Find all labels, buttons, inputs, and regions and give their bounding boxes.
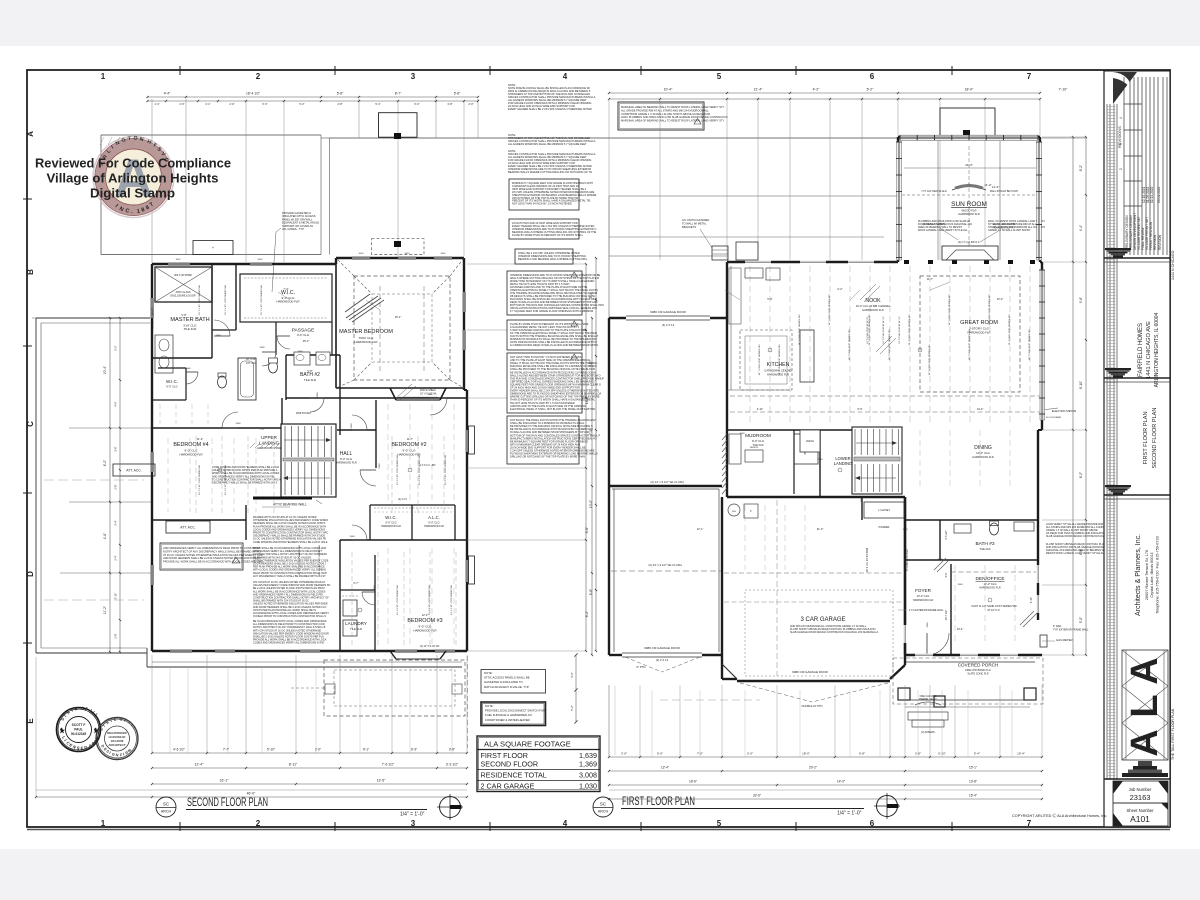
door arcs: [214, 320, 230, 336]
svg-text:BEARING WALLS WHERE CUTTING DR: BEARING WALLS WHERE CUTTING DRILLING OR …: [508, 170, 592, 174]
svg-text:2668: 2668: [351, 423, 353, 429]
svg-text:ELECTRIC METER: ELECTRIC METER: [1052, 409, 1076, 413]
village stamp seal: [93, 136, 174, 218]
dashed roof overhang around master bedroom: [354, 276, 450, 380]
svg-text:14" TJI 560 JOIST AT 16" OC: 14" TJI 560 JOIST AT 16" OC: [866, 316, 869, 344]
svg-text:ANY DISCREPANCY WALLS SHALL BE: ANY DISCREPANCY WALLS SHALL BE FRAMED WI…: [253, 575, 326, 578]
svg-text:2668: 2668: [317, 392, 319, 398]
sheet title: [1143, 408, 1158, 469]
svg-text:5'-2": 5'-2": [867, 88, 875, 92]
svg-text:3050: 3050: [176, 259, 182, 261]
svg-text:7: 7: [1027, 72, 1032, 81]
svg-text:16" X 9 1/2" JOIST SERIES 560: 16" X 9 1/2" JOIST SERIES 560: [397, 584, 399, 614]
landing hatch left plan: [250, 443, 255, 448]
svg-text:BEARING LOAD BEARING WALLS WHE: BEARING LOAD BEARING WALLS WHERE CUTTING…: [518, 257, 588, 261]
boxed attic note: [160, 543, 243, 570]
svg-text:14'-0": 14'-0": [837, 780, 845, 784]
svg-text:A: A: [26, 131, 35, 137]
svg-text:AFL CODES - TYP: AFL CODES - TYP: [282, 227, 304, 231]
svg-text:(2) 14" X 9 1/2" WL: (2) 14" X 9 1/2" WL: [420, 646, 440, 648]
svg-text:13'-8": 13'-8": [969, 780, 977, 784]
svg-text:6'-7": 6'-7": [353, 581, 358, 585]
bottom wall jamb blocks sunroom: [904, 260, 909, 264]
svg-text:14" TJI 560 JOIST AT 16" OC: 14" TJI 560 JOIST AT 16" OC: [898, 316, 901, 344]
svg-text:600 X 48 SHWR: 600 X 48 SHWR: [174, 274, 192, 277]
svg-text:BATH #3: BATH #3: [975, 541, 994, 547]
vanity: [155, 335, 173, 373]
svg-text:16" X 9 1/2" JOIST SERIES 560: 16" X 9 1/2" JOIST SERIES 560: [299, 544, 301, 574]
svg-text:Telephone: 815-759-0720 Fax:: Telephone: 815-759-0720 Fax: 815-759-073…: [1156, 536, 1160, 613]
svg-text:FIRST FLOOR PLAN: FIRST FLOOR PLAN: [1143, 411, 1149, 464]
svg-text:2668: 2668: [216, 335, 222, 337]
svg-text:2668: 2668: [186, 368, 192, 370]
svg-text:HARDWOOD FLR: HARDWOOD FLR: [862, 308, 883, 312]
windows: gaps on walls: [168, 263, 190, 266]
svg-text:WALL SHOULD BE 5 INCH: WALL SHOULD BE 5 INCH: [990, 190, 1019, 193]
wic / alc closets: [370, 504, 455, 506]
revisions labels: [1117, 91, 1162, 250]
first floor staircase: [852, 427, 902, 494]
svg-text:ENCLOSURE & DOOR: ENCLOSURE & DOOR: [171, 294, 196, 297]
svg-text:CODE WINDOW AND DOOR HEADERS S: CODE WINDOW AND DOOR HEADERS SHALL BE 2-…: [253, 541, 328, 544]
svg-text:5'-10": 5'-10": [1030, 597, 1033, 603]
ac unit boxes: [712, 246, 728, 260]
second floor plan title: [156, 795, 427, 818]
smoke det circles: [298, 438, 302, 442]
svg-text:A101: A101: [1130, 814, 1150, 824]
svg-text:2'-0": 2'-0": [747, 752, 753, 756]
svg-text:2'-0": 2'-0": [315, 748, 321, 752]
svg-text:BARREL VAULT: BARREL VAULT: [919, 698, 937, 701]
svg-text:NOTE:: NOTE:: [484, 671, 493, 675]
svg-text:15'-4": 15'-4": [969, 794, 977, 798]
svg-text:A: A: [1124, 729, 1166, 756]
svg-text:10'-0" CLG: 10'-0" CLG: [983, 582, 996, 586]
svg-text:6'-2": 6'-2": [837, 287, 842, 291]
svg-text:8'-2": 8'-2": [585, 611, 589, 617]
svg-text:SECOND FLOOR PLAN: SECOND FLOOR PLAN: [187, 795, 268, 809]
svg-text:3050: 3050: [258, 259, 264, 261]
mudroom details: [745, 450, 763, 462]
svg-text:2'-0": 2'-0": [621, 752, 627, 756]
svg-text:14" TJI 560 JOIST SERIES 560: 14" TJI 560 JOIST SERIES 560: [849, 329, 851, 361]
svg-text:7: 7: [1027, 819, 1032, 828]
sunroom windows: [920, 136, 944, 139]
svg-text:HARDWOOD FLR: HARDWOOD FLR: [398, 453, 421, 457]
chimney left plan: [379, 113, 418, 138]
svg-text:ADJACENT SOFFIT: ADJACENT SOFFIT: [994, 226, 1015, 229]
svg-text:11'-7": 11'-7": [927, 277, 933, 281]
revisions table corner ornament: [1113, 72, 1137, 104]
svg-text:(3) 14" x 9 1/2" WL FLUSH: (3) 14" x 9 1/2" WL FLUSH: [650, 480, 683, 484]
svg-text:00-012345: 00-012345: [71, 732, 86, 736]
svg-text:3: 3: [1119, 143, 1123, 145]
svg-text:3'-8": 3'-8": [447, 102, 452, 106]
svg-text:3'-1": 3'-1": [205, 102, 210, 106]
svg-text:41'-3": 41'-3": [965, 163, 973, 167]
svg-text:11'-2": 11'-2": [103, 605, 107, 614]
svg-text:9'-6": 9'-6": [1079, 297, 1083, 303]
svg-text:4'-2": 4'-2": [813, 88, 821, 92]
dining/bath/den divider walls: [904, 497, 906, 655]
svg-text:5'-0": 5'-0": [657, 752, 663, 756]
grid labels: [26, 72, 1032, 828]
svg-text:6'-8": 6'-8": [859, 752, 865, 756]
svg-text:2668 POCKET: 2668 POCKET: [296, 413, 312, 415]
dashed line left of note boxes: [467, 656, 469, 748]
svg-text:HARDWOOD FLR: HARDWOOD FLR: [979, 586, 1000, 590]
svg-text:1,369: 1,369: [579, 760, 597, 769]
svg-text:COVERED PORCH: COVERED PORCH: [958, 663, 999, 668]
svg-text:ALA SQUARE FOOTAGE: ALA SQUARE FOOTAGE: [484, 740, 571, 749]
boxed electrical note: [507, 353, 582, 413]
right-side bays left plan: [469, 426, 475, 454]
svg-text:2668: 2668: [818, 459, 824, 461]
svg-text:ARCH: ARCH: [598, 810, 609, 814]
svg-text:(3) 2 X 12: (3) 2 X 12: [656, 658, 669, 662]
svg-text:BRACKETS: BRACKETS: [682, 225, 696, 229]
svg-text:1441 N CHICAGO: 1441 N CHICAGO: [1171, 250, 1175, 280]
svg-text:AND ORDINANCES VERIFY ALL DIME: AND ORDINANCES VERIFY ALL DIMENSIONS IN …: [163, 546, 261, 550]
svg-text:4'-4": 4'-4": [1079, 225, 1083, 231]
svg-text:6" PTN: 6" PTN: [637, 665, 646, 669]
svg-text:10'-0" CLG: 10'-0" CLG: [976, 451, 990, 455]
svg-text:18'-6": 18'-6": [689, 780, 697, 784]
svg-text:BEDROOM #4: BEDROOM #4: [173, 442, 208, 448]
svg-text:O: O: [119, 718, 122, 722]
svg-text:9'-6": 9'-6": [857, 407, 862, 411]
grid ticks top: [23, 66, 952, 831]
svg-text:3,008: 3,008: [579, 771, 597, 780]
svg-text:1'-4": 1'-4": [154, 102, 159, 106]
note box top: [618, 102, 704, 130]
boxed bearing1 note: [507, 271, 582, 315]
left deck outline: [36, 317, 150, 319]
bottom dim chains: [609, 756, 1042, 758]
left vertical chains: [109, 318, 111, 652]
svg-text:14'-2": 14'-2": [977, 407, 984, 411]
svg-text:11'-2": 11'-2": [984, 183, 991, 187]
svg-text:4'-8": 4'-8": [1079, 549, 1083, 555]
svg-text:LANDING: LANDING: [834, 461, 853, 466]
svg-text:MASTER BATH: MASTER BATH: [170, 317, 209, 323]
svg-text:(2) 2 X 1 (2) 600 O.C.: (2) 2 X 1 (2) 600 O.C.: [958, 242, 980, 244]
svg-text:AND DOOR HEADERS SHALL BE 2-2X: AND DOOR HEADERS SHALL BE 2-2X10 UNLESS …: [163, 556, 261, 560]
single car garage: [609, 485, 722, 487]
first floor north arrow: [874, 793, 900, 819]
divider capital 3: [1104, 485, 1170, 499]
svg-text:POWDER: POWDER: [879, 526, 890, 529]
svg-text:3050: 3050: [405, 253, 411, 255]
svg-text:MATCH ADJACENT R-VALUE, TYP.: MATCH ADJACENT R-VALUE, TYP.: [484, 685, 529, 689]
beam notes dashed through garage: [611, 570, 721, 572]
svg-text:ROOF LATERAL LOAD VERIFY STYLE: ROOF LATERAL LOAD VERIFY STYLE ALL: [918, 229, 968, 232]
front steps: [908, 712, 948, 720]
svg-text:11 FIREBLOCKING REQD IN WALLS: 11 FIREBLOCKING REQD IN WALLS ALONG AND …: [510, 343, 598, 347]
svg-text:L: L: [1124, 694, 1166, 717]
svg-text:Architects & Planners, Inc.: Architects & Planners, Inc.: [1135, 534, 1142, 616]
dashed lower-roof porch below: [324, 660, 465, 716]
first floor plan title: [593, 794, 864, 817]
svg-text:4'-4": 4'-4": [164, 92, 171, 96]
water heater / furnace circles in garage corner: [728, 504, 740, 516]
sunroom extra windows: [903, 136, 917, 139]
left plan joist dashes bed3: [387, 548, 389, 645]
svg-text:2'-5 1/2": 2'-5 1/2": [945, 530, 948, 539]
long driveway edge: [614, 686, 616, 755]
garage top walls: [609, 317, 626, 319]
svg-text:WASH: WASH: [806, 439, 814, 443]
kitchen sink: [745, 268, 763, 278]
bottom dim chains left plan: [152, 752, 467, 754]
svg-text:TILE FLR: TILE FLR: [184, 327, 198, 331]
svg-text:1/4" = 1'-0": 1/4" = 1'-0": [400, 812, 425, 818]
more bottom extension verticals left plan: [169, 668, 171, 753]
svg-text:5'-4": 5'-4": [262, 102, 267, 106]
closet near landing: [864, 502, 904, 518]
left plan joist dashes bed2: [387, 404, 389, 500]
svg-text:GRADE 1 X 30 WALL FLUSH SOFFIT: GRADE 1 X 30 WALL FLUSH SOFFIT: [988, 229, 1031, 232]
svg-text:Village of Arlington Heights: Village of Arlington Heights: [47, 172, 219, 186]
svg-text:12'-4": 12'-4": [195, 763, 204, 767]
svg-text:16'-1": 16'-1": [220, 779, 229, 783]
sheet edge vertical text: [1171, 250, 1175, 760]
svg-text:6'-8": 6'-8": [589, 589, 593, 595]
svg-text:9'-1": 9'-1": [363, 748, 369, 752]
right plan mudroom/dining dashes: [744, 505, 746, 570]
svg-text:5'-4": 5'-4": [375, 102, 380, 106]
divider capital 2: [1104, 368, 1170, 382]
svg-text:9080 CM GARAGE DOOR: 9080 CM GARAGE DOOR: [650, 310, 687, 314]
top dim chains: [609, 92, 1040, 94]
svg-text:4: 4: [563, 819, 568, 828]
water line dashes across left plan bottom deck: [44, 599, 144, 601]
svg-text:2: 2: [256, 819, 261, 828]
column shaft band: [1107, 104, 1117, 780]
svg-text:8'-8": 8'-8": [585, 527, 589, 533]
first floor eave line across: [330, 137, 898, 139]
svg-text:10'-0": 10'-0": [589, 500, 593, 508]
extended bottom dim base lines: [36, 789, 467, 791]
garage interior dashed: [776, 500, 778, 676]
svg-text:PAUL: PAUL: [74, 728, 82, 732]
wall from garage door to main: [726, 262, 728, 497]
svg-text:1/4" = 1'-0": 1/4" = 1'-0": [837, 811, 862, 817]
main wall windows right plan: [745, 261, 771, 264]
svg-text:DRILLING OR NOTCHING OF THE TO: DRILLING OR NOTCHING OF THE TOP PLATE BY…: [510, 455, 585, 459]
svg-text:4'-8": 4'-8": [337, 102, 342, 106]
svg-text:6'-2": 6'-2": [103, 459, 107, 466]
svg-text:9080 CM GARAGE DOOR: 9080 CM GARAGE DOOR: [644, 646, 681, 650]
svg-text:4'-6 1/2": 4'-6 1/2": [173, 748, 185, 752]
svg-text:(3) 2 X 12: (3) 2 X 12: [662, 323, 675, 327]
svg-text:7'-2": 7'-2": [259, 427, 264, 431]
svg-text:HARDWOOD FLR: HARDWOOD FLR: [958, 212, 979, 216]
svg-text:2'-9": 2'-9": [229, 102, 234, 106]
tray ceiling corner diagonals master bedroom: [354, 276, 372, 294]
project name: [1138, 312, 1160, 387]
svg-text:SLATE CONC FLR: SLATE CONC FLR: [967, 673, 988, 676]
svg-text:16" X 9 1/2" JOIST SERIES 560: 16" X 9 1/2" JOIST SERIES 560: [451, 584, 453, 614]
svg-text:C: C: [26, 421, 35, 427]
svg-text:NOTIFY ARCHITECT OF ANY DISCRE: NOTIFY ARCHITECT OF ANY DISCREPANCY WALL…: [163, 549, 261, 553]
svg-text:4'-8": 4'-8": [103, 532, 107, 539]
svg-text:7'-4": 7'-4": [283, 287, 288, 291]
kitchen pantry: [794, 434, 818, 464]
svg-text:21'-0": 21'-0": [817, 527, 824, 531]
great room window band right wall: [1040, 270, 1045, 420]
svg-text:14" TJI 560 JOIST SERIES 560: 14" TJI 560 JOIST SERIES 560: [989, 294, 991, 326]
note ducts: [507, 416, 579, 464]
svg-text:26007 Ravine Terrace St. 176: 26007 Ravine Terrace St. 176: [1145, 550, 1149, 600]
svg-text:HVAC PLUMBING AND INSULATION L: HVAC PLUMBING AND INSULATION LOW SLAB GA…: [621, 115, 728, 119]
svg-text:FOYER: FOYER: [915, 588, 932, 593]
svg-text:8'-11": 8'-11": [289, 763, 298, 767]
garage door swing dashed: [740, 683, 812, 702]
svg-text:16" X 9 1/2" WL: 16" X 9 1/2" WL: [420, 392, 438, 395]
svg-text:5: 5: [717, 72, 722, 81]
boxed header note: [509, 219, 579, 239]
svg-text:HARDWOOD FLR: HARDWOOD FLR: [414, 629, 437, 633]
svg-text:ARCH: ARCH: [161, 810, 172, 814]
svg-text:DOUBLE 16' PTN: DOUBLE 16' PTN: [802, 704, 823, 708]
svg-text:HARDWOOD FLR: HARDWOOD FLR: [277, 300, 300, 304]
svg-text:ATT. ACC.: ATT. ACC.: [126, 469, 142, 473]
svg-text:14" TJI 560 JOIST SERIES 560: 14" TJI 560 JOIST SERIES 560: [759, 344, 761, 376]
small dim chain between plans bottom: [575, 655, 577, 722]
right plan roof lines: [609, 195, 897, 197]
svg-text:9'-0" CLG: 9'-0" CLG: [166, 385, 177, 389]
svg-text:TYP. EXTERIOR FRAME WALL: TYP. EXTERIOR FRAME WALL: [1053, 629, 1089, 632]
left plan roof outline: [101, 134, 321, 136]
svg-text:2 X 6 C.C. JMT: 2 X 6 C.C. JMT: [420, 465, 436, 467]
right dim chains: [1072, 137, 1074, 655]
svg-text:12'-3": 12'-3": [422, 613, 429, 617]
svg-text:9'-0" CLG: 9'-0" CLG: [752, 439, 764, 443]
attic bearing wall label line: [262, 506, 290, 508]
svg-text:5 7 SQUARE FEET FOR GRADE FLOO: 5 7 SQUARE FEET FOR GRADE FLOOR OPENINGS…: [510, 309, 593, 313]
svg-text:2 X 6 EXTERIOR FRAME WALL: 2 X 6 EXTERIOR FRAME WALL: [909, 609, 944, 612]
svg-text:PLATE BY MORE THAN 50 PERCENT: PLATE BY MORE THAN 50 PERCENT OF ITS WID…: [512, 233, 584, 237]
joist dashed verticals across rooms: [749, 266, 751, 426]
svg-text:5'-8": 5'-8": [181, 313, 186, 317]
svg-text:MARGINAL AREA OF BEARING WALL: MARGINAL AREA OF BEARING WALL TO RESIST …: [621, 105, 725, 109]
svg-text:2668: 2668: [350, 536, 356, 538]
attic bearing wall segment: [253, 497, 312, 500]
svg-text:HARDWOOD FLR: HARDWOOD FLR: [972, 455, 993, 459]
svg-text:4: 4: [1119, 117, 1123, 119]
svg-text:DEN/OFFICE: DEN/OFFICE: [975, 576, 1004, 582]
svg-text:5: 5: [717, 819, 722, 828]
svg-text:HARDWOOD FLR: HARDWOOD FLR: [424, 525, 444, 528]
rotated dims foyer area: [866, 530, 1033, 620]
svg-text:2668: 2668: [861, 497, 863, 503]
title block outer border: [1104, 71, 1170, 827]
tub: [238, 358, 256, 400]
svg-text:D: D: [26, 571, 35, 577]
svg-text:CATHEDRAL CEILING: CATHEDRAL CEILING: [764, 369, 791, 373]
svg-text:HARDWOOD FLR: HARDWOOD FLR: [355, 340, 378, 344]
svg-text:14" TJI 560 JOIST SERIES 560: 14" TJI 560 JOIST SERIES 560: [799, 314, 801, 346]
svg-text:6: 6: [870, 819, 875, 828]
architect seal 1: [57, 706, 101, 752]
svg-text:3'-3 1/2": 3'-3 1/2": [446, 763, 459, 767]
garage structure: [721, 497, 723, 679]
svg-text:21'-4": 21'-4": [754, 88, 763, 92]
svg-text:32'-6": 32'-6": [753, 794, 761, 798]
svg-text:4'-0": 4'-0": [114, 401, 118, 406]
svg-text:5'-10": 5'-10": [267, 748, 275, 752]
garage apron lines below right plan: [608, 685, 610, 757]
svg-text:W.I.C.: W.I.C.: [166, 379, 178, 384]
svg-text:14" TJI 560 JOIST AT 16" OC: 14" TJI 560 JOIST AT 16" OC: [882, 316, 885, 344]
svg-text:4: 4: [563, 72, 568, 81]
svg-text:2'-0": 2'-0": [468, 102, 473, 106]
left plan wic dashes: [374, 511, 452, 513]
svg-text:SCOTT F: SCOTT F: [72, 723, 86, 727]
svg-text:PROVIDE ALL WORK SHALL BE IN A: PROVIDE ALL WORK SHALL BE IN ACCORDANCE …: [163, 560, 263, 564]
chimney sunroom top: [940, 108, 995, 136]
svg-text:O: O: [81, 706, 84, 711]
svg-text:NOT LESS THAN 54 INCH BY 1 5 I: NOT LESS THAN 54 INCH BY 1 5 INCH FASTEN…: [512, 202, 572, 206]
column capital below badge: [1104, 761, 1170, 779]
svg-text:5'-8": 5'-8": [454, 92, 461, 96]
bottom wall windows right plan: [915, 654, 933, 657]
staircase: [281, 424, 336, 497]
svg-text:15'-4": 15'-4": [1017, 752, 1025, 756]
svg-text:5'-2": 5'-2": [414, 102, 419, 106]
svg-text:14" TJI 560 JOIST SERIES 560: 14" TJI 560 JOIST SERIES 560: [869, 314, 871, 346]
svg-text:W.I.C.: W.I.C.: [385, 515, 396, 520]
boxed egress note: [509, 179, 579, 210]
svg-text:4'-0": 4'-0": [179, 102, 184, 106]
svg-text:EVERY HEADER SHALL BE 2 2X4 SP: EVERY HEADER SHALL BE 2 2X4 SPF UNLESS O…: [508, 107, 592, 111]
bath2 fixtures: [269, 352, 331, 373]
svg-text:MASTER BEDROOM: MASTER BEDROOM: [339, 329, 393, 335]
svg-text:HARDWOOD FLR: HARDWOOD FLR: [381, 525, 401, 528]
exterior walls: [152, 263, 336, 265]
svg-text:WH: WH: [732, 511, 736, 513]
job / sheet number box: [1113, 781, 1168, 826]
den windows: [1037, 565, 1040, 583]
svg-text:9'-0" CLG: 9'-0" CLG: [428, 521, 439, 525]
island: [800, 330, 814, 382]
svg-text:1: 1: [101, 72, 106, 81]
svg-text:5'-8": 5'-8": [337, 92, 344, 96]
svg-text:3: 3: [411, 819, 416, 828]
svg-text:10'-4": 10'-4": [664, 88, 673, 92]
sunroom interior details: [902, 194, 966, 196]
small wic lower-left: [158, 367, 186, 369]
svg-text:RESIDENCE TOTAL: RESIDENCE TOTAL: [481, 771, 547, 780]
svg-text:18'-4 1/2": 18'-4 1/2": [246, 92, 261, 96]
svg-text:03-01-2022: 03-01-2022: [1157, 186, 1161, 203]
ceiling dashed great lines: [379, 286, 381, 372]
svg-text:5'-4": 5'-4": [974, 752, 980, 756]
svg-text:6' CONC STD RGB: 6' CONC STD RGB: [906, 549, 909, 571]
svg-text:WOOD FLR: WOOD FLR: [961, 209, 976, 213]
svg-text:ARLINGTON HEIGHTS, IL 60004: ARLINGTON HEIGHTS, IL 60004: [1154, 312, 1160, 387]
svg-text:6: 6: [870, 72, 875, 81]
note box attic panels (left of footage table): [481, 670, 546, 694]
svg-text:ATTIC BEARING WALL: ATTIC BEARING WALL: [273, 503, 307, 507]
svg-text:8'-2": 8'-2": [1079, 165, 1083, 171]
boxed dims note: [515, 249, 573, 264]
WIC top: [235, 264, 237, 330]
svg-text:16" X 9 1/2" JOIST SERIES 560: 16" X 9 1/2" JOIST SERIES 560: [225, 284, 227, 314]
svg-text:ATT. ACC: ATT. ACC: [246, 362, 257, 365]
svg-text:AT 16 OC UNLESS NOTED OTHERWIS: AT 16 OC UNLESS NOTED OTHERWISE INSULATI…: [163, 553, 263, 557]
